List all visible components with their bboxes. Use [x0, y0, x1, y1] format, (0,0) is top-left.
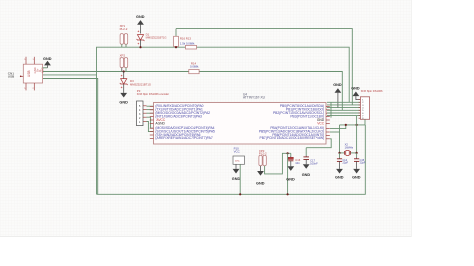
- wire PB5 to crystal node: [330, 125, 346, 129]
- junction at R16/rail B: [175, 46, 177, 48]
- svg-text:22pF: 22pF: [343, 162, 349, 165]
- wire XTAL1 drop: [339, 125, 341, 153]
- svg-text:GND: GND: [333, 83, 342, 87]
- right pin stubs: [326, 106, 330, 138]
- connector P2 (KNX 8pin DS1066): [359, 89, 383, 125]
- svg-text:GND: GND: [136, 15, 145, 19]
- ground (C17, arrow down): [302, 164, 311, 177]
- ground (C14, arrow down): [335, 169, 344, 180]
- junction at D1/rail B: [139, 46, 141, 48]
- zener diode D3: [120, 72, 151, 93]
- ground (above D1, arrow up): [136, 15, 145, 34]
- junction crystal left: [338, 152, 340, 154]
- capacitor C17 (100nF): [303, 148, 318, 166]
- ground (right block GND1, arrow up): [333, 83, 342, 107]
- junction crystal right: [356, 152, 358, 154]
- wire USB D-: [43, 74, 97, 76]
- connector P3 (KNX 8pin DS1066 encoder): [137, 89, 170, 126]
- junction C16 node / rail drop: [287, 152, 289, 154]
- svg-text:PB7(PCINT15/ADC10/OC1BX/RESET*: PB7(PCINT15/ADC10/OC1BX/RESET*/dW): [260, 136, 325, 140]
- svg-text:KNX 8pin DS1066 encoder: KNX 8pin DS1066 encoder: [137, 92, 169, 96]
- wire bundle IC to P2: [327, 102, 360, 117]
- ground (P10, arrow down): [232, 169, 241, 181]
- svg-text:VCC: VCC: [234, 150, 240, 154]
- svg-text:GND: GND: [335, 175, 344, 179]
- svg-text:1.5k 0.068k: 1.5k 0.068k: [180, 42, 195, 46]
- resistor R16: [174, 29, 195, 48]
- wire crystal top row: [340, 124, 366, 126]
- wire bottom ground rail: [97, 125, 366, 194]
- svg-text:GND: GND: [302, 173, 311, 177]
- wire P3 pin5 to PA0: [147, 105, 154, 107]
- capacitor C14 (22pF): [337, 153, 349, 169]
- svg-text:MMSZ5221BT1G: MMSZ5221BT1G: [130, 83, 151, 87]
- crystal X2 (16MHz): [340, 143, 357, 156]
- junction at XP2/D3/rail C: [123, 70, 125, 72]
- svg-text:GND: GND: [232, 177, 241, 181]
- ground (XP3, arrow down): [256, 171, 265, 186]
- ground (C16, arrow down): [286, 166, 295, 181]
- svg-text:10n: 10n: [295, 161, 300, 165]
- connector XP1 (PL2-2): [120, 24, 128, 47]
- svg-text:USB: USB: [8, 75, 14, 79]
- wire C17 to PB7/RESET: [306, 139, 331, 148]
- svg-text:MMSZ5221BT1G: MMSZ5221BT1G: [146, 36, 167, 40]
- wire P3 pin3 to PA2: [147, 112, 154, 114]
- svg-text:AGND: AGND: [155, 121, 165, 125]
- svg-text:GND: GND: [352, 175, 361, 179]
- svg-text:GND: GND: [351, 87, 360, 91]
- wire rail B: [97, 47, 350, 194]
- junction bottom rail: [287, 193, 289, 195]
- wire USB VCC: [43, 79, 98, 195]
- svg-text:USB: USB: [27, 70, 31, 77]
- junction crystal row left: [345, 124, 347, 126]
- jumper P10 (VCC): [233, 147, 245, 169]
- svg-text:ATTINY167-XU: ATTINY167-XU: [243, 96, 266, 100]
- junction P10/bottom rail: [239, 193, 241, 195]
- svg-text:GND: GND: [286, 177, 295, 181]
- resistor R14 (inline on rail C): [189, 62, 199, 74]
- capacitor C16 (10n, polarized): [288, 153, 301, 166]
- ground (below D3, arrow down): [119, 93, 128, 105]
- wire P3 pin1 to PA5: [147, 122, 154, 132]
- svg-text:GND: GND: [119, 100, 128, 104]
- wire P10 to bottom rail: [239, 164, 241, 194]
- wire XP3 to C16 node: [265, 153, 291, 174]
- svg-text:KNX 8pin DS1066: KNX 8pin DS1066: [361, 89, 383, 93]
- wire P3 pin4 to PA1: [147, 109, 154, 111]
- connector CN1 (USB): [8, 57, 45, 91]
- junction crystal row right: [356, 124, 358, 126]
- svg-text:0.068k: 0.068k: [190, 65, 199, 69]
- canvas background: [0, 0, 412, 237]
- capacitor C15 (22pF): [354, 153, 366, 169]
- ground (USB GND, arrow up): [43, 57, 52, 68]
- connector XP3 (PL2-2): [259, 149, 267, 171]
- svg-text:(AREF/XREF/AIN1/ADC7/PCINT7)PA: (AREF/XREF/AIN1/ADC7/PCINT7)PA7: [155, 136, 212, 140]
- wire PB4 leg: [330, 131, 340, 133]
- wire rail C: [43, 72, 343, 111]
- left pin stubs: [150, 106, 154, 138]
- IC U4 ATTINY167-XU: [150, 92, 330, 144]
- ground (C15, arrow down): [352, 169, 361, 180]
- connector XP2 (PL2-2): [120, 54, 128, 72]
- wire P3 pin2 to PA4: [147, 117, 154, 128]
- wire rail A (top): [176, 29, 352, 105]
- svg-text:PL2-2: PL2-2: [120, 27, 128, 31]
- wire C16 node to bottom rail: [287, 153, 289, 194]
- svg-text:22pF: 22pF: [360, 162, 366, 165]
- svg-text:100nF: 100nF: [310, 162, 318, 166]
- zener diode D1: [137, 31, 167, 48]
- resistor R13 (inline): [186, 45, 197, 49]
- wire XTAL2 drop: [356, 116, 358, 153]
- svg-text:GND: GND: [43, 57, 52, 61]
- svg-text:GND: GND: [256, 182, 265, 186]
- svg-text:R16 R13: R16 R13: [180, 37, 191, 41]
- ground (right block GND2, arrow up): [351, 87, 360, 100]
- svg-text:VCC: VCC: [317, 121, 325, 125]
- svg-text:16MHz: 16MHz: [345, 146, 354, 150]
